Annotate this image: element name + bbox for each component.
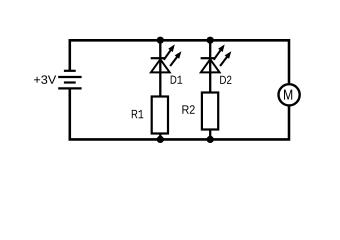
- label R2: [182, 105, 194, 114]
- label +3V: [34, 75, 56, 84]
- resistor R1: [152, 97, 168, 134]
- wire: top rail to D2 cathode: [209, 40, 211, 58]
- label D2: [220, 76, 231, 84]
- wire: top rail to D1 cathode: [159, 40, 161, 58]
- wire: R1 to bottom rail: [159, 134, 161, 140]
- node: junction D2 branch / top rail: [207, 37, 214, 44]
- label D1: [171, 76, 183, 84]
- wire: battery bottom lead, bottom rail, motor bottom lead: [70, 88, 289, 139]
- LED D1 (cathode bar, triangle, emission arrows): [151, 44, 182, 72]
- wire: D2 anode to R2: [209, 58, 211, 92]
- node: junction R1 branch / bottom rail: [157, 136, 164, 143]
- wire: battery top lead, top rail, motor top lead: [70, 40, 289, 83]
- LED D2 (cathode bar, triangle, emission arrows): [201, 44, 232, 72]
- label R1: [132, 110, 144, 118]
- node: junction D1 branch / top rail: [157, 37, 164, 44]
- node: junction R2 branch / bottom rail: [207, 136, 214, 143]
- wire: R2 to bottom rail: [209, 130, 211, 140]
- wire: D1 anode to R1: [159, 58, 161, 96]
- resistor R2: [202, 93, 218, 130]
- motor M: [279, 84, 300, 105]
- battery (3V, two cells): [58, 71, 81, 89]
